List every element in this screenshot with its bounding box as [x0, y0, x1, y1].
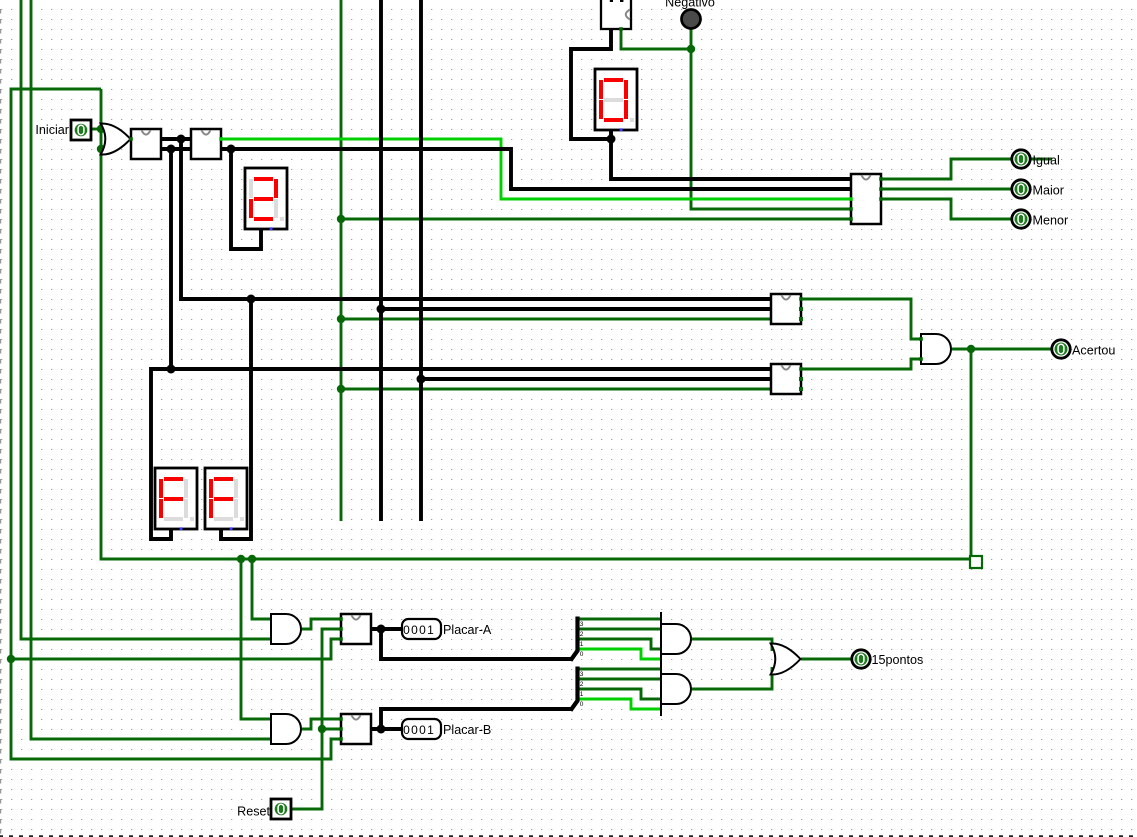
- svg-text:1: 1: [580, 641, 584, 648]
- svg-text:Placar-B: Placar-B: [443, 723, 491, 737]
- svg-text:1: 1: [580, 691, 584, 698]
- svg-text:0: 0: [419, 723, 426, 737]
- svg-text:Negativo: Negativo: [665, 0, 715, 10]
- svg-text:0: 0: [411, 623, 418, 637]
- svg-text:0: 0: [580, 701, 584, 708]
- svg-text:0: 0: [403, 623, 410, 637]
- svg-text:2: 2: [580, 631, 584, 638]
- svg-text:Maior: Maior: [1033, 184, 1065, 198]
- svg-text:1: 1: [427, 623, 434, 637]
- svg-text:0: 0: [403, 723, 410, 737]
- svg-text:15pontos: 15pontos: [872, 653, 924, 667]
- svg-text:0: 0: [580, 651, 584, 658]
- svg-text:Acertou: Acertou: [1072, 344, 1115, 358]
- svg-text:1: 1: [427, 723, 434, 737]
- svg-text:Igual: Igual: [1033, 154, 1060, 168]
- svg-text:2: 2: [580, 681, 584, 688]
- svg-text:0: 0: [411, 723, 418, 737]
- svg-text:3: 3: [580, 671, 584, 678]
- svg-text:3: 3: [580, 621, 584, 628]
- svg-text:Menor: Menor: [1033, 214, 1069, 228]
- svg-text:Reset: Reset: [237, 805, 270, 819]
- svg-text:0: 0: [419, 623, 426, 637]
- svg-text:Placar-A: Placar-A: [443, 623, 492, 637]
- svg-text:Iniciar: Iniciar: [35, 123, 69, 137]
